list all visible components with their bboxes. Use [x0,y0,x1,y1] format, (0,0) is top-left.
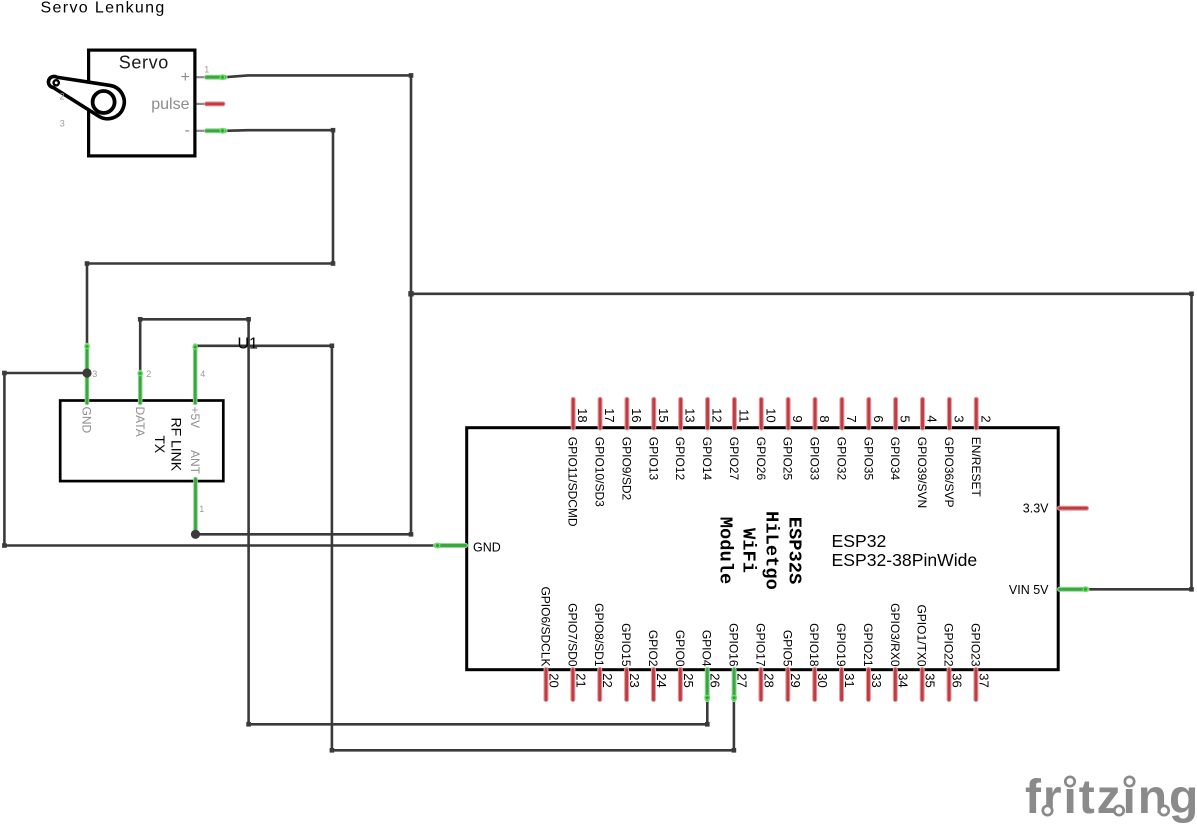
svg-text:7: 7 [844,415,859,422]
svg-text:30: 30 [815,673,830,687]
svg-text:HiLetgo: HiLetgo [761,511,783,590]
svg-text:GPIO32: GPIO32 [834,437,848,481]
svg-text:33: 33 [869,673,884,687]
svg-text:2: 2 [60,92,65,102]
svg-text:GPIO1/TX0: GPIO1/TX0 [915,604,929,666]
svg-text:GND: GND [80,407,94,434]
svg-text:GPIO16: GPIO16 [727,623,741,667]
svg-text:18: 18 [575,408,590,422]
svg-text:GPIO15: GPIO15 [619,623,633,667]
svg-text:GPIO33: GPIO33 [808,437,822,481]
svg-text:GPIO19: GPIO19 [834,623,848,667]
svg-text:ESP32S: ESP32S [784,517,806,585]
svg-text:GPIO23: GPIO23 [968,623,982,667]
svg-text:4: 4 [200,369,205,379]
svg-text:3: 3 [92,369,97,379]
svg-text:2: 2 [978,415,993,422]
svg-text:ESP32: ESP32 [832,531,887,551]
svg-text:GPIO18: GPIO18 [807,623,821,667]
svg-text:GPIO35: GPIO35 [861,437,875,481]
svg-text:ANT: ANT [188,450,202,475]
svg-text:34: 34 [896,673,911,687]
svg-text:12: 12 [710,408,725,422]
svg-text:GPIO3/RX0: GPIO3/RX0 [888,603,902,667]
svg-text:2: 2 [146,369,151,379]
svg-text:GPIO14: GPIO14 [700,437,714,481]
svg-text:8: 8 [817,415,832,422]
svg-text:3.3V: 3.3V [1023,502,1049,516]
svg-text:3: 3 [60,118,65,128]
svg-text:26: 26 [708,673,723,687]
svg-text:36: 36 [949,673,964,687]
svg-text:GPIO17: GPIO17 [753,623,767,667]
svg-text:GPIO34: GPIO34 [888,437,902,481]
svg-text:GPIO13: GPIO13 [646,437,660,481]
svg-text:11: 11 [736,409,751,423]
svg-text:6: 6 [871,415,886,422]
svg-text:9: 9 [790,415,805,422]
svg-text:ESP32-38PinWide: ESP32-38PinWide [832,550,978,570]
svg-text:GPIO2: GPIO2 [646,630,660,667]
svg-text:Module: Module [715,517,737,585]
svg-text:pulse: pulse [151,96,189,113]
svg-text:25: 25 [681,673,696,687]
svg-text:GPIO12: GPIO12 [673,437,687,481]
svg-text:23: 23 [627,673,642,687]
svg-text:22: 22 [600,673,615,687]
svg-text:Servo Lenkung: Servo Lenkung [41,0,166,17]
svg-text:GPIO6/SDCLK: GPIO6/SDCLK [539,586,553,666]
svg-text:16: 16 [629,408,644,422]
svg-text:35: 35 [923,673,938,687]
svg-text:24: 24 [654,673,669,687]
svg-text:GPIO9/SD2: GPIO9/SD2 [619,437,633,501]
svg-text:GPIO10/SD3: GPIO10/SD3 [593,437,607,507]
svg-text:U1: U1 [238,336,259,353]
svg-text:+: + [181,69,190,86]
svg-text:GPIO25: GPIO25 [781,437,795,481]
svg-text:10: 10 [763,408,778,422]
svg-text:GPIO5: GPIO5 [780,630,794,667]
svg-text:WiFi: WiFi [738,528,760,573]
svg-text:GPIO11/SDCMD: GPIO11/SDCMD [566,437,580,527]
svg-text:GPIO39/SVN: GPIO39/SVN [915,437,929,508]
svg-text:+5V: +5V [188,407,202,429]
svg-text:17: 17 [602,408,617,422]
svg-text:DATA: DATA [133,407,147,437]
svg-text:GPIO8/SD1: GPIO8/SD1 [592,603,606,667]
svg-text:GPIO0: GPIO0 [673,630,687,667]
svg-text:GPIO26: GPIO26 [754,437,768,481]
svg-text:-: - [185,122,190,139]
svg-text:GPIO36/SVP: GPIO36/SVP [942,437,956,508]
svg-text:4: 4 [925,415,940,422]
svg-text:29: 29 [788,673,803,687]
svg-text:GPIO4: GPIO4 [700,630,714,667]
svg-text:3: 3 [951,415,966,422]
svg-text:5: 5 [898,415,913,422]
svg-text:VIN 5V: VIN 5V [1009,583,1049,597]
svg-text:1: 1 [199,504,204,514]
svg-text:27: 27 [734,673,749,687]
svg-text:13: 13 [683,408,698,422]
svg-text:Servo: Servo [119,52,169,72]
svg-text:GND: GND [473,541,501,555]
svg-text:37: 37 [976,673,991,687]
svg-text:20: 20 [546,673,561,687]
svg-text:GPIO22: GPIO22 [942,623,956,667]
svg-text:GPIO27: GPIO27 [727,437,741,481]
svg-text:EN/RESET: EN/RESET [969,437,983,498]
svg-text:31: 31 [842,673,857,687]
svg-text:1: 1 [204,65,209,75]
svg-text:GPIO21: GPIO21 [861,623,875,667]
svg-text:15: 15 [656,408,671,422]
svg-text:RF LINK: RF LINK [169,417,185,471]
svg-text:GPIO7/SD0: GPIO7/SD0 [565,603,579,667]
svg-text:21: 21 [573,673,588,687]
svg-text:TX: TX [152,435,168,454]
svg-text:28: 28 [761,673,776,687]
svg-text:fritzing: fritzing [1025,771,1197,824]
